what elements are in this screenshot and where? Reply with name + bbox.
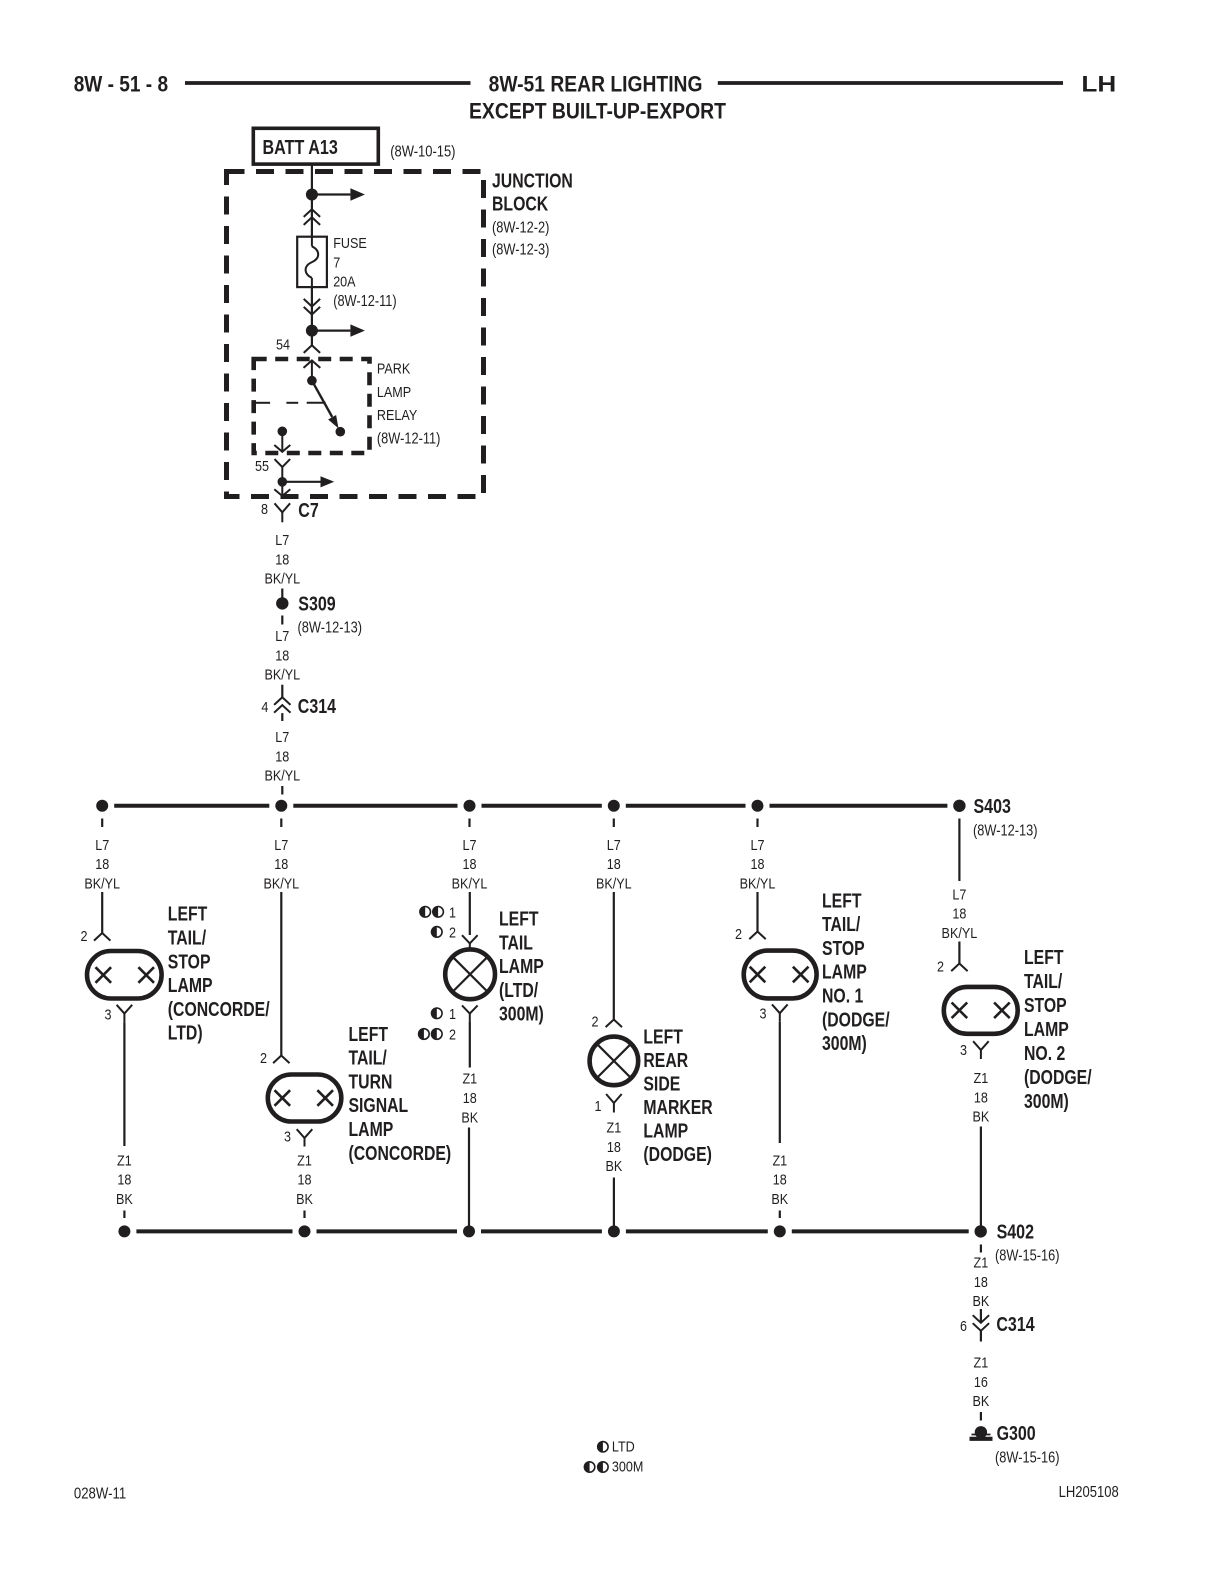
- battery feed box BATT A13: [253, 128, 378, 164]
- wire branch 2 down: [280, 892, 282, 1055]
- svg-text:2: 2: [592, 1014, 599, 1031]
- wire dashed tick: [123, 1211, 125, 1219]
- svg-text:(DODGE/: (DODGE/: [1024, 1067, 1092, 1089]
- connector pin 2 chevron: [951, 964, 967, 972]
- svg-text:C314: C314: [298, 696, 337, 718]
- connector pin 2 chevron: [749, 932, 765, 940]
- wire branch 6 to splice S402: [980, 1127, 982, 1232]
- svg-text:18: 18: [117, 1172, 131, 1189]
- splice S402: [975, 1225, 987, 1237]
- splice S403: [953, 800, 965, 812]
- connector chevron relay pin 54: [304, 345, 320, 353]
- svg-text:TAIL/: TAIL/: [349, 1048, 388, 1070]
- variant mark pin 2 (LTD): [432, 927, 443, 938]
- svg-text:LEFT: LEFT: [499, 909, 539, 931]
- svg-text:LEFT: LEFT: [1024, 947, 1064, 969]
- wire fuse to relay node: [311, 287, 313, 331]
- svg-text:18: 18: [952, 906, 966, 923]
- svg-text:TAIL/: TAIL/: [822, 914, 861, 936]
- svg-text:BK/YL: BK/YL: [263, 876, 299, 893]
- svg-text:BK: BK: [973, 1293, 990, 1310]
- svg-text:(DODGE/: (DODGE/: [822, 1009, 890, 1031]
- wire node to relay pin 54: [311, 331, 313, 345]
- svg-text:18: 18: [275, 647, 289, 664]
- svg-text:8W - 51 - 8: 8W - 51 - 8: [74, 72, 168, 97]
- svg-text:BK: BK: [296, 1191, 313, 1208]
- svg-text:300M): 300M): [1024, 1091, 1069, 1113]
- svg-text:2: 2: [449, 925, 456, 942]
- wire feed to fuse: [311, 195, 313, 237]
- connector pin 2 chevron: [606, 1020, 622, 1028]
- svg-text:LTD: LTD: [612, 1439, 635, 1456]
- svg-text:L7: L7: [275, 729, 289, 746]
- svg-text:18: 18: [751, 856, 765, 873]
- svg-text:Z1: Z1: [974, 1355, 989, 1372]
- arrow park lamp feed continues right: [282, 481, 320, 483]
- svg-text:(DODGE): (DODGE): [643, 1144, 712, 1166]
- svg-text:L7: L7: [463, 837, 477, 854]
- svg-text:18: 18: [607, 856, 621, 873]
- wire branch 4 to ground bus: [613, 1178, 615, 1232]
- svg-text:3: 3: [284, 1129, 291, 1146]
- svg-text:Z1: Z1: [772, 1152, 787, 1169]
- svg-text:(LTD/: (LTD/: [499, 980, 539, 1002]
- node junction block park lamp output: [278, 477, 288, 487]
- header rule left: [185, 81, 471, 85]
- wire branch 3 below lamp: [469, 1022, 471, 1068]
- wire dashed tick: [468, 819, 470, 828]
- wire dashed tick: [303, 1211, 305, 1219]
- park lamp relay dashed box: [254, 359, 370, 453]
- svg-text:2: 2: [735, 926, 742, 943]
- svg-text:LAMP: LAMP: [499, 956, 544, 978]
- node bus junction 2: [275, 800, 287, 812]
- svg-text:18: 18: [463, 1090, 477, 1107]
- wire dashed tick: [980, 1412, 982, 1421]
- lamp LEFT TAIL LAMP (LTD/300M): [445, 949, 495, 999]
- svg-text:(8W-12-11): (8W-12-11): [333, 293, 397, 310]
- svg-text:18: 18: [298, 1172, 312, 1189]
- lamp LEFT REAR SIDE MARKER LAMP (DODGE): [590, 1037, 639, 1086]
- svg-text:18: 18: [463, 856, 477, 873]
- node fuse output junction: [306, 325, 318, 337]
- bus Z1 ground return: [136, 1229, 292, 1233]
- wire dashed tick: [779, 1211, 781, 1219]
- svg-text:C314: C314: [996, 1314, 1035, 1336]
- svg-text:LH205108: LH205108: [1059, 1484, 1119, 1501]
- svg-text:LTD): LTD): [168, 1023, 203, 1045]
- svg-text:8W-51 REAR LIGHTING: 8W-51 REAR LIGHTING: [489, 72, 703, 97]
- lamp LEFT TAIL/TURN SIGNAL LAMP (CONCORDE): [268, 1075, 342, 1122]
- svg-text:18: 18: [607, 1139, 621, 1156]
- svg-text:LH: LH: [1081, 72, 1116, 97]
- svg-text:(8W-12-3): (8W-12-3): [492, 242, 549, 259]
- svg-text:18: 18: [274, 856, 288, 873]
- svg-text:54: 54: [276, 337, 290, 354]
- svg-text:BLOCK: BLOCK: [492, 194, 549, 216]
- svg-text:FUSE: FUSE: [333, 235, 367, 252]
- svg-text:Z1: Z1: [974, 1070, 989, 1087]
- svg-text:LEFT: LEFT: [643, 1026, 683, 1048]
- svg-text:(8W-12-13): (8W-12-13): [973, 823, 1038, 840]
- svg-text:NO. 1: NO. 1: [822, 986, 863, 1008]
- svg-text:REAR: REAR: [643, 1050, 688, 1072]
- wire BATT A13 down into junction block: [311, 164, 313, 194]
- svg-text:L7: L7: [275, 532, 289, 549]
- svg-text:BK/YL: BK/YL: [452, 876, 488, 893]
- svg-text:TAIL/: TAIL/: [168, 928, 207, 950]
- svg-text:Z1: Z1: [297, 1152, 312, 1169]
- svg-text:(8W-15-16): (8W-15-16): [995, 1248, 1060, 1265]
- node relay contact: [336, 427, 346, 437]
- node ground bus junction 3: [463, 1225, 475, 1237]
- svg-text:BK: BK: [116, 1191, 133, 1208]
- splice S309: [276, 597, 288, 609]
- svg-text:18: 18: [275, 748, 289, 765]
- svg-text:18: 18: [275, 551, 289, 568]
- svg-text:18: 18: [773, 1172, 787, 1189]
- wire dashed tick: [281, 589, 283, 598]
- node ground bus junction 1: [118, 1225, 130, 1237]
- svg-text:BK: BK: [771, 1191, 788, 1208]
- node relay output pin 55: [278, 427, 288, 437]
- wire branch 5 to ground bus: [779, 1022, 781, 1143]
- wire branch 5 down: [756, 892, 758, 931]
- svg-text:G300: G300: [997, 1423, 1036, 1445]
- svg-text:(CONCORDE): (CONCORDE): [349, 1143, 452, 1165]
- svg-text:STOP: STOP: [822, 938, 865, 960]
- svg-text:18: 18: [974, 1089, 988, 1106]
- node bus junction 4: [608, 800, 620, 812]
- svg-text:LEFT: LEFT: [822, 890, 862, 912]
- svg-text:6: 6: [960, 1318, 967, 1335]
- svg-text:(8W-15-16): (8W-15-16): [995, 1449, 1060, 1466]
- svg-text:S403: S403: [974, 796, 1011, 818]
- svg-text:TAIL/: TAIL/: [1024, 971, 1063, 993]
- svg-text:BK: BK: [973, 1393, 990, 1410]
- connector pin 2 chevron: [94, 933, 110, 941]
- connector pin 3 Y: [297, 1129, 313, 1138]
- wire dashed tick: [980, 1245, 982, 1253]
- lamp LEFT TAIL/STOP LAMP (CONCORDE/LTD): [87, 951, 162, 999]
- svg-text:Z1: Z1: [974, 1255, 989, 1272]
- wire dashed tick: [613, 819, 615, 828]
- svg-text:BK: BK: [461, 1110, 478, 1127]
- svg-text:STOP: STOP: [168, 951, 211, 973]
- lamp LEFT TAIL/STOP LAMP NO. 1 (DODGE/300M): [744, 951, 817, 999]
- wire branch 6 from S403 down: [958, 819, 960, 882]
- svg-text:SIGNAL: SIGNAL: [349, 1095, 409, 1117]
- svg-text:MARKER: MARKER: [643, 1097, 713, 1119]
- svg-text:Z1: Z1: [117, 1152, 132, 1169]
- svg-text:16: 16: [974, 1374, 988, 1391]
- svg-text:LAMP: LAMP: [168, 975, 213, 997]
- svg-text:4: 4: [261, 699, 268, 716]
- connector pin 3 Y: [973, 1041, 989, 1050]
- node ground bus junction 5: [774, 1225, 786, 1237]
- svg-text:300M): 300M): [499, 1004, 544, 1026]
- wire dashed tick: [280, 819, 282, 828]
- junction block exit pin arrow: [281, 482, 283, 496]
- variant marks pin 2 (300M): [419, 1029, 430, 1040]
- svg-text:TAIL: TAIL: [499, 932, 533, 954]
- svg-text:JUNCTION: JUNCTION: [492, 171, 573, 193]
- svg-text:STOP: STOP: [1024, 995, 1067, 1017]
- svg-text:1: 1: [595, 1098, 602, 1115]
- svg-text:3: 3: [760, 1005, 767, 1022]
- svg-text:(8W-10-15): (8W-10-15): [390, 143, 455, 160]
- wire dashed tick: [101, 819, 103, 828]
- svg-text:LAMP: LAMP: [349, 1119, 394, 1141]
- connector exit Y: [462, 1005, 478, 1013]
- svg-text:2: 2: [449, 1027, 456, 1044]
- relay switch blade: [312, 381, 332, 417]
- svg-text:BATT A13: BATT A13: [263, 137, 338, 159]
- connector chevron below relay pin 55: [275, 459, 291, 467]
- svg-text:L7: L7: [607, 837, 621, 854]
- variant marks pin 1 (300M): [420, 907, 431, 918]
- node battery feed junction: [306, 189, 318, 201]
- svg-text:7: 7: [333, 254, 340, 271]
- svg-text:BK/YL: BK/YL: [264, 667, 300, 684]
- connector chevrons below fuse: [304, 299, 320, 307]
- connector pin 3 Y: [772, 1004, 788, 1013]
- svg-text:18: 18: [974, 1274, 988, 1291]
- legend mark LTD: [598, 1442, 608, 1452]
- svg-text:1: 1: [449, 1006, 456, 1023]
- wire branch 6 to lamp: [958, 942, 960, 964]
- svg-text:L7: L7: [952, 886, 966, 903]
- svg-text:S402: S402: [997, 1221, 1034, 1243]
- arrow feed continues right: [312, 193, 351, 195]
- svg-text:PARK: PARK: [377, 361, 410, 378]
- connector C314 pin 6: [980, 1309, 982, 1322]
- node bus junction 1: [96, 800, 108, 812]
- svg-text:C7: C7: [298, 500, 319, 522]
- svg-text:TURN: TURN: [349, 1071, 393, 1093]
- junction block dashed outline: [227, 172, 484, 497]
- wire branch 1 down: [101, 892, 103, 933]
- fuse 7 20A: [297, 237, 327, 287]
- svg-text:L7: L7: [95, 837, 109, 854]
- ground G300: [975, 1426, 987, 1438]
- svg-text:LAMP: LAMP: [1024, 1019, 1069, 1041]
- svg-text:2: 2: [81, 928, 88, 945]
- svg-text:LAMP: LAMP: [822, 962, 867, 984]
- svg-text:BK/YL: BK/YL: [264, 571, 300, 588]
- bus L7 feed distribution: [114, 804, 269, 808]
- lamp LEFT TAIL/STOP LAMP NO. 2 (DODGE/300M): [944, 987, 1018, 1034]
- svg-text:LEFT: LEFT: [349, 1024, 389, 1046]
- svg-text:L7: L7: [275, 628, 289, 645]
- svg-text:Z1: Z1: [462, 1071, 477, 1088]
- wire branch 3 down: [469, 892, 471, 935]
- svg-text:028W-11: 028W-11: [74, 1486, 126, 1503]
- connector pin 1 Y: [606, 1094, 622, 1103]
- svg-text:EXCEPT BUILT-UP-EXPORT: EXCEPT BUILT-UP-EXPORT: [469, 99, 726, 124]
- svg-text:Z1: Z1: [607, 1120, 622, 1137]
- svg-text:1: 1: [449, 904, 456, 921]
- svg-text:LEFT: LEFT: [168, 904, 208, 926]
- svg-text:BK: BK: [606, 1158, 623, 1175]
- svg-text:LAMP: LAMP: [377, 384, 411, 401]
- relay fixed contact dashed line: [255, 402, 271, 404]
- node relay common: [307, 376, 317, 386]
- svg-text:2: 2: [260, 1050, 267, 1067]
- variant mark pin 1 (LTD): [432, 1008, 443, 1019]
- svg-text:NO. 2: NO. 2: [1024, 1043, 1065, 1065]
- wire branch 3 to ground bus: [468, 1128, 470, 1232]
- arrow fused feed continues right: [312, 330, 351, 332]
- connector pin 3 Y: [117, 1005, 133, 1014]
- svg-text:300M): 300M): [822, 1033, 867, 1055]
- connector C314 pin 4: [281, 685, 283, 698]
- svg-text:(8W-12-11): (8W-12-11): [377, 430, 441, 447]
- svg-text:BK: BK: [973, 1109, 990, 1126]
- svg-text:BK/YL: BK/YL: [740, 876, 776, 893]
- svg-text:L7: L7: [751, 837, 765, 854]
- node ground bus junction 2: [299, 1225, 311, 1237]
- wire branch 4 down: [613, 892, 615, 1019]
- wire dashed tick: [281, 786, 283, 795]
- node ground bus junction 4: [608, 1225, 620, 1237]
- svg-text:BK/YL: BK/YL: [264, 768, 300, 785]
- svg-text:S309: S309: [298, 593, 335, 615]
- connector chevrons above fuse: [304, 209, 320, 217]
- wire dashed tick: [756, 819, 758, 828]
- svg-text:L7: L7: [274, 837, 288, 854]
- svg-text:8: 8: [261, 501, 268, 518]
- connector C7: [275, 503, 291, 512]
- svg-text:BK/YL: BK/YL: [84, 876, 120, 893]
- node bus junction 5: [752, 800, 764, 812]
- svg-text:20A: 20A: [333, 274, 355, 291]
- svg-text:55: 55: [255, 458, 269, 475]
- svg-text:SIDE: SIDE: [643, 1073, 680, 1095]
- wire branch 1 to ground bus: [123, 1022, 125, 1146]
- wire dashed tick: [281, 616, 283, 625]
- header rule right: [718, 81, 1063, 85]
- relay pin 55 terminal arrow: [281, 431, 283, 451]
- svg-text:3: 3: [960, 1042, 967, 1059]
- svg-text:18: 18: [95, 856, 109, 873]
- svg-text:LAMP: LAMP: [643, 1120, 688, 1142]
- connector pin 2 chevron: [273, 1056, 289, 1064]
- svg-text:3: 3: [105, 1007, 112, 1024]
- connector entry Y: [462, 935, 478, 943]
- svg-text:(CONCORDE/: (CONCORDE/: [168, 999, 270, 1021]
- svg-text:300M: 300M: [612, 1459, 644, 1476]
- svg-text:(8W-12-2): (8W-12-2): [492, 220, 549, 237]
- relay pin 54 terminal arrow: [304, 361, 321, 368]
- legend mark 300M: [584, 1462, 594, 1472]
- node bus junction 3: [464, 800, 476, 812]
- svg-text:2: 2: [937, 959, 944, 976]
- svg-text:BK/YL: BK/YL: [942, 925, 978, 942]
- svg-text:RELAY: RELAY: [377, 407, 417, 424]
- svg-text:(8W-12-13): (8W-12-13): [298, 620, 363, 637]
- svg-text:BK/YL: BK/YL: [596, 876, 632, 893]
